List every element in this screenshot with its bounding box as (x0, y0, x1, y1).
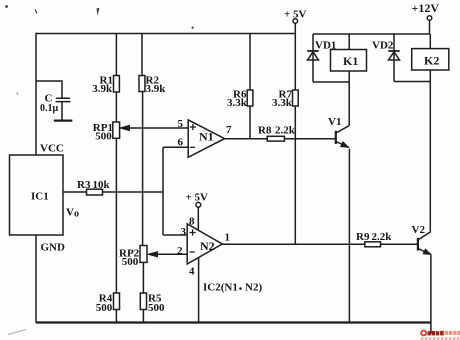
wire R1 to RP1 (115, 92, 117, 122)
svg-text:K1: K1 (343, 54, 358, 68)
label Vo (66, 207, 79, 220)
relay K2 box (412, 49, 449, 70)
wire capacitor branch (36, 81, 62, 98)
label K2 (424, 54, 439, 68)
node chain1 R1 top wire (115, 34, 117, 76)
label VD1 (315, 40, 336, 52)
svg-text:o: o (74, 209, 79, 220)
diode VD2 (388, 34, 399, 82)
pin 3 (181, 226, 187, 238)
svg-text:500: 500 (95, 131, 112, 143)
wire R2 to RP2 (142, 92, 144, 246)
label +5V top (284, 9, 307, 21)
svg-text:V: V (66, 207, 74, 219)
resistor R4 (114, 293, 120, 310)
label R1 (92, 75, 113, 96)
svg-text:VD2: VD2 (372, 40, 394, 52)
label R7 (272, 89, 293, 109)
wire R5 to ground rail (142, 310, 144, 323)
label R4 (96, 293, 113, 314)
label GND (41, 242, 66, 254)
label 0.1u (40, 103, 59, 114)
op-amp N2 plus mark (190, 229, 196, 235)
svg-text:K2: K2 (424, 54, 439, 68)
wire bottom ground rail (36, 321, 431, 323)
transistor V1 (336, 126, 349, 148)
wire VD1 anode loop (313, 81, 349, 83)
pin 6 (178, 136, 184, 148)
svg-text:+ 5V: + 5V (186, 192, 209, 204)
wire node chainV N1pin6-N2pin3 (162, 147, 164, 235)
svg-text:500: 500 (96, 302, 113, 314)
terminal +12V circle (427, 16, 432, 21)
wire K2 top (429, 34, 431, 49)
wire R8 to V1 base (284, 138, 335, 140)
resistor R9 (365, 242, 381, 247)
svg-text:+12V: +12V (412, 1, 440, 15)
op-amp N1 (188, 120, 224, 157)
resistor R5 (140, 293, 146, 310)
svg-text:GND: GND (41, 242, 66, 254)
wire R3 output Vo (63, 191, 163, 193)
transistor V2 (418, 232, 431, 255)
wire N2 pin8 power (197, 207, 199, 230)
svg-text:3.3k: 3.3k (272, 97, 293, 109)
svg-text:1: 1 (225, 231, 231, 243)
svg-text:2: 2 (177, 245, 183, 257)
wire N1 output to R8 (225, 138, 268, 140)
wire N2 pin4 to ground rail (198, 258, 200, 323)
wire RP2 to R5 (142, 262, 144, 293)
wire R6 to N1 output junction (249, 106, 251, 139)
op-amp N2 (187, 224, 222, 264)
svg-text:2.2k: 2.2k (275, 125, 296, 137)
pin 2 (177, 245, 183, 257)
wire K1 top (348, 34, 350, 50)
label R2 (146, 75, 167, 96)
potentiometer RP2 (140, 246, 147, 263)
svg-text:3.3k: 3.3k (227, 97, 248, 109)
wire relay rail (313, 33, 430, 35)
wire VD2 anode loop (394, 81, 430, 83)
svg-text:7: 7 (226, 124, 232, 136)
svg-text:N1: N1 (199, 130, 214, 144)
op-amp N2 minus mark (190, 251, 195, 253)
wire IC1 GND to bottom rail (35, 235, 37, 323)
wire R7 down to N2 output (294, 106, 296, 244)
wire N2 output to R9 (222, 243, 364, 245)
diode VD1 (307, 34, 318, 82)
svg-text:R3: R3 (77, 179, 91, 191)
resistor R8 (267, 136, 284, 141)
svg-text:VD1: VD1 (315, 40, 336, 52)
label IC2(N1 N2) (203, 282, 262, 294)
wire R4 to ground rail (115, 310, 117, 323)
resistor R7 (293, 90, 299, 106)
label R5 (148, 293, 165, 314)
svg-text:V1: V1 (328, 116, 341, 128)
label C (45, 93, 53, 105)
svg-text:10k: 10k (93, 179, 111, 191)
label +5V mid (186, 192, 209, 204)
relay K1 box (331, 50, 367, 72)
wire +12V drop (429, 20, 431, 34)
svg-text:5: 5 (178, 118, 184, 130)
resistor R6 (247, 90, 253, 106)
svg-text:8: 8 (189, 216, 195, 228)
pin 7 (226, 124, 232, 136)
terminal +5V mid circle (196, 202, 201, 207)
label +12V (412, 1, 440, 15)
capacitor C1 plates (54, 98, 73, 120)
op-amp N1 plus mark (190, 124, 196, 130)
wire left VCC drop (35, 33, 37, 155)
svg-text:N2: N2 (200, 239, 215, 253)
wire top +5V rail (36, 33, 295, 35)
wire +5V to R7 (294, 23, 296, 90)
wire K1 bottom to V1 collector (348, 71, 350, 126)
op-amp N1 minus mark (190, 146, 195, 148)
label IC1 (31, 191, 49, 203)
label N2 (200, 239, 215, 253)
svg-text:IC1: IC1 (31, 191, 49, 203)
svg-text:6: 6 (178, 136, 184, 148)
wire N1 pin6 (163, 146, 188, 148)
pin 4 (189, 266, 195, 278)
svg-text:3.9k: 3.9k (92, 83, 113, 95)
label R9 2.2k (356, 231, 392, 243)
svg-text:4: 4 (189, 266, 195, 278)
resistor R2 (139, 76, 145, 92)
label RP1 (93, 122, 113, 143)
wire R9 to V2 base (381, 243, 418, 245)
label VCC (40, 143, 64, 155)
label R8 2.2k (258, 125, 296, 137)
label VD2 (372, 40, 394, 52)
svg-text:N2): N2) (245, 282, 262, 294)
svg-text:R8: R8 (258, 125, 272, 137)
potentiometer RP1 (113, 122, 120, 138)
watermark logo (420, 330, 460, 340)
pin 5 (178, 118, 184, 130)
scan speckles (5, 5, 194, 334)
wire R6 pullup top (249, 34, 251, 91)
wire K2 bottom to V2 collector (429, 70, 431, 231)
wire V2 emitter to ground rail (430, 255, 432, 334)
wire R2 top (141, 34, 143, 76)
label RP2 (119, 248, 140, 269)
svg-text:R9: R9 (356, 231, 370, 243)
svg-text:2.2k: 2.2k (372, 231, 393, 243)
label N1 (199, 130, 214, 144)
svg-text:IC2(N1: IC2(N1 (203, 282, 238, 294)
wire RP2 wiper to N2 pin2 (148, 252, 187, 257)
svg-text:3: 3 (181, 226, 187, 238)
pin 8 (189, 216, 195, 228)
IC1 box (10, 155, 64, 235)
svg-text:+ 5V: + 5V (284, 9, 307, 21)
wire N2 pin3 (163, 234, 187, 236)
label R6 (227, 89, 248, 109)
resistor R3 (87, 189, 103, 195)
svg-text:V2: V2 (412, 224, 426, 236)
svg-text:VCC: VCC (40, 143, 64, 155)
wire RP1 to R4 (115, 138, 117, 293)
resistor R1 (114, 76, 120, 93)
terminal +5V circle (293, 19, 298, 24)
pin 1 (225, 231, 231, 243)
label K1 (343, 54, 358, 68)
label V1 (328, 116, 341, 128)
svg-text:3.9k: 3.9k (146, 83, 167, 95)
wire RP1 wiper to N1 pin5 (120, 125, 188, 130)
wire V1 emitter to ground rail (348, 149, 350, 323)
svg-text:0.1μ: 0.1μ (40, 103, 59, 114)
svg-text:500: 500 (122, 256, 139, 268)
label V2 (412, 224, 426, 236)
label R3 10k (77, 179, 111, 191)
svg-text:500: 500 (148, 302, 165, 314)
